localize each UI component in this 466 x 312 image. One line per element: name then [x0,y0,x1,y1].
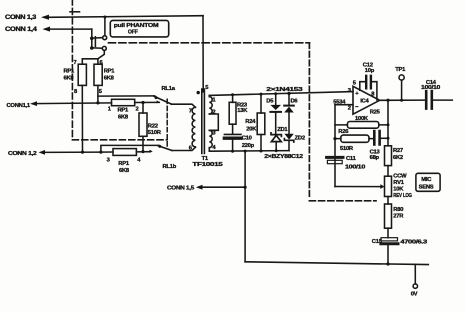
wire feedback vertical output column [387,100,389,146]
transformer T1 secondary winding upper [209,97,212,114]
wire switch pole b to resistor rail [98,51,104,59]
svg-text:CONN1,1: CONN1,1 [7,103,31,109]
zener ZD2 [284,134,293,151]
svg-text:R26: R26 [338,129,349,135]
capacitor C15 lead [387,245,389,264]
label 510R [340,146,354,152]
transformer T1 pin 7 label [189,108,192,114]
svg-text:13K: 13K [237,108,248,114]
wire CONN1,5 drop from bottom rail [244,151,246,262]
capacitor C12 plates [366,76,371,89]
label pin 3 [107,157,111,163]
switch blade a [94,37,103,40]
potentiometer RV1 wiper [335,184,385,189]
switch S1a pole circle [103,36,107,40]
switch S1b pole circle [102,46,106,50]
wire op-amp pin 2 [335,104,353,106]
svg-text:−: − [355,104,359,110]
label pin 5 [353,81,357,87]
capacitor C15 top cup [381,238,398,241]
transformer secondary series link pins 2-3 [209,114,218,130]
svg-text:+: + [355,91,359,97]
wire secondary top to rail [208,95,210,96]
svg-text:ZD2: ZD2 [295,135,305,141]
transformer pin 3 label [212,131,216,137]
resistor R80 body [385,204,392,228]
op-amp IC4 triangle [353,86,380,114]
label D6 [291,98,299,104]
wire CONN1,5 with arrowhead [196,185,245,190]
label 4700/6.3 [400,240,428,246]
label C10 220p [242,136,255,149]
svg-text:R24: R24 [245,119,256,125]
wire switch feed vertical [91,29,93,48]
svg-text:7: 7 [189,108,192,114]
junction dot TP1 [400,99,403,102]
testpoint TP1 [399,75,404,100]
wire secondary bottom to rail [208,148,210,152]
resistor R25 body [347,122,378,129]
relay RL1b contact blob [158,145,161,148]
wire inverting node vertical [334,105,336,187]
svg-text:RP1: RP1 [118,161,130,167]
label C12 10p [363,62,375,74]
wire op-amp output [380,99,425,101]
label 2x1N4153 [266,87,303,93]
relay RL1b NC contact tip [150,150,153,153]
node CONN1,1 label [7,103,31,109]
capacitor C11 top plate [327,156,343,159]
capacitor C15 bottom plate [381,242,398,245]
label C14 100/10 [421,80,440,91]
resistor R23 body [229,102,236,124]
tick on dashed line [70,11,80,13]
capacitor C14 plates [426,91,432,108]
label C15 [372,239,383,245]
svg-text:2: 2 [348,106,351,112]
junction dot R25 right [387,123,390,126]
svg-text:C15: C15 [372,239,383,245]
wire C13 right [381,137,388,139]
resistor R26 body [341,135,369,142]
capacitor C11 bottom cup [327,160,342,163]
resistor RP1 6-5 body [94,64,102,85]
resistor RP1 3-4 body [113,149,136,156]
svg-text:10K: 10K [393,186,404,192]
label ZD2 [295,135,305,141]
resistor R27 body [385,146,392,166]
wire output right of C14 [433,99,452,101]
resistor R24 body [257,113,265,135]
junction dot R24 bottom [260,150,263,153]
junction dot C15 bottom on rail [386,262,389,265]
svg-text:220p: 220p [242,143,255,149]
svg-text:R27: R27 [393,148,403,154]
label D5 [266,98,274,104]
wire diode network bottom rail [209,150,289,153]
wire CONN1,2 with arrowhead [39,150,101,155]
svg-text:6K8: 6K8 [118,114,129,120]
svg-text:2×1N4153: 2×1N4153 [266,87,303,93]
switch S1a phantom contact dot [90,37,94,41]
label R22 510R [148,123,162,136]
label TP1 [395,67,406,73]
junction dot D5 top [274,92,277,95]
label RP1 6K8 series upper [118,107,130,120]
pin 6 [100,60,104,66]
svg-text:10p: 10p [365,68,375,74]
svg-text:RP1: RP1 [64,69,76,75]
svg-text:RV1: RV1 [393,180,404,186]
resistor R80 leads [387,197,389,238]
capacitor C13 plates [374,131,379,144]
junction dot ZD1 bottom [275,149,278,152]
potentiometer RV1 body [385,176,392,196]
wire phantom feed vertical from CONN1,3 down to transformer screen [202,16,204,92]
label pull PHANTOM OFF box [110,20,168,37]
label RL1b [163,164,177,170]
wire from CONN1,3 rail down to switch pole a [104,17,106,36]
wire CONN1,3 with arrowhead [41,15,203,20]
junction dot D6 top [287,92,290,95]
wire screen boundary dashed horizontal [72,139,167,141]
svg-text:100K: 100K [355,116,369,122]
label CCW RV1 10K REV LOG [393,173,412,199]
junction dot pin5 on CONN1,1 [96,101,99,104]
label pin 2 [348,106,351,112]
pin 7 [74,60,77,66]
resistor RP1 6-5 leads [97,59,99,103]
wire relay gang linkage dashed vertical RL1a-RL1b [166,99,168,148]
wire mechanical linkage dashed horizontal top [109,42,310,44]
svg-text:OFF: OFF [128,30,138,36]
transformer screen junction dot [197,91,200,94]
svg-text:510R: 510R [340,146,354,152]
junction dot CONN1,5 tap [244,186,247,189]
label pin 1 [108,107,112,113]
junction dot C10 bottom [231,150,234,153]
svg-text:ZD1: ZD1 [277,127,288,133]
resistor R23 leads [232,95,234,134]
svg-text:4700/6.3: 4700/6.3 [400,240,428,246]
label 0V [411,292,418,298]
op-amp minus sign [355,104,359,110]
label RP1 6K8 right [104,69,116,82]
wire screen boundary dashed vertical left [71,0,73,137]
svg-text:R25: R25 [370,110,381,116]
junction dot R23 top [231,93,234,96]
svg-text:CCW: CCW [393,173,407,179]
label RP1 6K8 series lower [118,161,130,174]
svg-text:SENS: SENS [419,185,434,191]
junction dot drop top [244,150,247,153]
label RL1a [162,86,176,92]
node CONN1,5 label [167,186,195,192]
label TF10015 [192,162,223,168]
resistor RP1 7-8 body [78,64,86,85]
node CONN1,4 label [5,26,37,33]
pin 5 [99,89,103,95]
svg-text:CONN 1,2: CONN 1,2 [8,151,37,157]
label pin 8 [371,91,375,97]
relay RL1a NC contact tip [157,100,160,103]
resistor R27 lead [387,166,389,177]
svg-text:20K: 20K [246,126,257,132]
relay RL1b lever [158,146,172,151]
junction dot CONN1,3 to switch [103,16,106,19]
label C11 100/10 [345,156,365,171]
switch blade b [94,47,103,49]
junction dot pin8 on CONN1,2 [81,151,84,154]
svg-text:R80: R80 [393,207,403,213]
terminal 0V circle [413,284,417,288]
svg-text:RL1a: RL1a [162,86,176,92]
svg-text:6K2: 6K2 [393,155,403,161]
label pin 3 [348,88,352,94]
label R23 13K [237,102,248,114]
transformer pin 1 label [212,97,216,103]
label R26 [338,129,349,135]
resistor R22 leads [142,103,144,152]
junction dot R22 bottom [141,150,144,153]
svg-text:RP1: RP1 [104,69,116,75]
svg-text:0V: 0V [411,292,418,298]
junction dot C13 right [387,137,390,140]
svg-text:TF10015: TF10015 [192,162,223,168]
label R25 100K [355,110,381,123]
svg-text:MIC: MIC [421,177,432,183]
junction dot feedback takeoff [386,99,389,102]
svg-text:RP1: RP1 [118,107,130,113]
resistor R26 leads [335,138,372,140]
junction dot R24 top [260,93,263,96]
svg-text:TP1: TP1 [395,67,406,73]
wire main bottom rail [245,262,428,265]
svg-text:510R: 510R [148,130,162,136]
junction dot R22 top [141,101,144,104]
svg-text:68p: 68p [370,155,380,161]
transformer T1 pin 6 label [189,146,193,152]
pin 8 [74,89,78,95]
label pin 2 [136,106,139,112]
switch S1b phantom contact dot [90,46,94,50]
label IC4 [360,99,369,105]
label 5534 [333,99,346,105]
wire RP1 1-2 to relay [135,101,160,103]
label T1 [202,156,209,162]
label R27 6K2 [393,148,403,161]
svg-text:100/10: 100/10 [421,85,440,91]
svg-text:D5: D5 [266,98,274,104]
node CONN1,3 label [5,14,37,21]
resistor R25 leads [335,124,388,126]
svg-text:C11: C11 [346,156,357,162]
label ZD1 [277,127,288,133]
svg-text:6K8: 6K8 [64,76,75,82]
wire CONN1,1 with arrowhead [30,101,112,106]
svg-text:CONN 1,3: CONN 1,3 [5,14,37,21]
transformer pin 4 label [212,145,216,151]
label R80 27R [393,207,404,220]
svg-text:100/10: 100/10 [345,165,365,171]
svg-text:2: 2 [136,106,139,112]
relay RL1a lever [154,96,172,104]
svg-text:pull PHANTOM: pull PHANTOM [114,23,159,29]
resistor R24 leads [260,94,262,151]
wire CONN1,4 with arrowhead [43,27,92,32]
wire relay bypass upper [98,95,155,97]
svg-text:C10: C10 [242,136,252,142]
svg-text:D6: D6 [291,98,299,104]
svg-text:6K8: 6K8 [119,168,130,174]
node CONN1,2 label [8,151,37,157]
transformer core lines [202,89,205,154]
wire lever to transformer pin6 [172,147,195,150]
wire lever to transformer pin7 [172,104,196,107]
diode D6 [284,93,294,133]
svg-text:27R: 27R [393,214,404,220]
label RP1 6K8 left [64,69,76,82]
wire mechanical linkage dashed horizontal to RV1 [309,200,376,202]
capacitor C10 lead [232,140,234,151]
svg-text:IC4: IC4 [360,99,369,105]
label MIC SENS box [416,173,440,191]
wire phantom resistor top rail [82,58,98,60]
svg-text:7: 7 [74,60,77,66]
switch linkage bar [94,37,96,47]
svg-text:RL1b: RL1b [163,164,177,170]
svg-text:R22: R22 [148,123,158,129]
svg-text:REV LOG: REV LOG [393,193,412,199]
wire relay bypass lower [101,145,159,152]
wire C12 to pin 8 / output [372,82,377,100]
wire 0V drop [414,264,416,284]
label pin 4 [137,158,141,164]
transformer T1 secondary winding lower [209,130,212,147]
transformer screen pin 5 label [205,85,209,91]
resistor RP1 7-8 leads [81,59,83,152]
resistor RP1 1-2 body [112,99,135,105]
junction dot bypass branch [99,151,102,154]
capacitor C10 bottom plate [224,136,241,139]
junction dot R26 left [333,137,336,140]
svg-text:6K8: 6K8 [104,76,115,82]
svg-text:2×BZY88C12: 2×BZY88C12 [264,154,303,160]
svg-text:2: 2 [212,109,215,115]
label 2xBZY88C12 [264,154,303,160]
op-amp plus sign [355,91,359,97]
label C13 68p [370,150,381,161]
wire comp pin 5 [360,82,366,91]
resistor R22 body [139,113,147,136]
capacitor C10 top plate [224,133,241,135]
svg-text:CONN 1,4: CONN 1,4 [5,26,37,33]
wire top rail to op-amp pin 3 [209,92,353,96]
wire RP1 3-4 into resistor [101,151,150,153]
label R24 20K [245,119,257,132]
transformer T1 primary winding [192,107,195,147]
diode D5 [270,94,281,134]
transformer pin 2 label [212,109,215,115]
wire mechanical linkage dashed vertical [308,43,310,198]
relay RL1a contact blob [155,96,158,99]
zener ZD1 [271,133,281,151]
svg-text:CONN 1,5: CONN 1,5 [167,186,195,192]
